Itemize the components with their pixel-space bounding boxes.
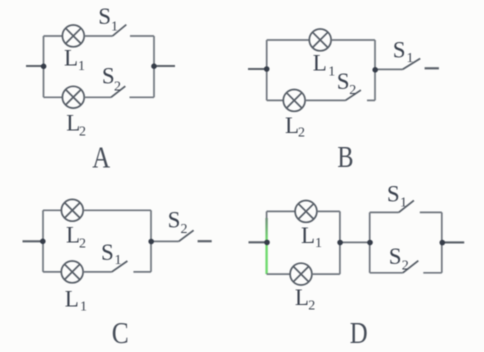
svg-text:L: L: [64, 46, 78, 71]
lamp L1 (circuit A): [62, 25, 84, 47]
wire: B bottom branch middle segment: [305, 99, 345, 101]
svg-text:A: A: [92, 141, 111, 175]
label S1 (circuit B): [393, 38, 414, 66]
wire: A bottom branch right segment: [130, 96, 155, 98]
label L1 (circuit C): [65, 287, 87, 315]
label S1 (circuit A): [98, 4, 118, 34]
label L1 (circuit D): [301, 223, 322, 251]
label L1 (circuit A): [64, 46, 85, 75]
wire: C left vertical: [42, 210, 44, 272]
label L1 (circuit B): [313, 51, 336, 80]
wire: D lamp-section bottom right segment: [312, 273, 340, 275]
label S2 (circuit A): [102, 64, 121, 95]
svg-text:L: L: [313, 51, 327, 76]
wire: A bottom branch middle segment: [84, 96, 111, 98]
wire: C left lead: [23, 240, 43, 242]
label S2 (circuit B): [337, 69, 357, 98]
node: B right junction: [372, 67, 378, 73]
svg-text:L: L: [285, 113, 299, 138]
label S1 (circuit D): [387, 181, 407, 210]
svg-text:2: 2: [402, 259, 409, 274]
svg-text:1: 1: [407, 51, 414, 66]
wire: C bottom branch middle segment: [83, 271, 112, 273]
node: D junction 1: [264, 240, 270, 246]
wire: D switch-section top right segment: [420, 211, 442, 213]
wire: B bottom branch right segment: [367, 99, 375, 101]
lamp L2 (circuit B): [283, 90, 305, 112]
svg-text:L: L: [301, 223, 315, 248]
wire: A right lead: [154, 65, 175, 67]
wire: B right vertical: [374, 40, 376, 100]
wire: B bottom branch left segment: [267, 99, 284, 101]
lamp L1 (circuit D): [295, 201, 317, 223]
switch S1 blade (circuit D): [399, 200, 414, 212]
wire: B node to switch S1: [375, 68, 402, 70]
lamp L2 (circuit A): [62, 86, 84, 108]
node: D junction 4: [440, 240, 446, 246]
wire: A top branch middle segment: [84, 35, 112, 37]
svg-text:S: S: [168, 207, 181, 232]
svg-text:1: 1: [115, 253, 122, 268]
wire: B top branch left segment: [267, 39, 310, 41]
svg-text:2: 2: [308, 298, 315, 313]
switch S1 blade (circuit C): [112, 261, 128, 272]
wire: A top branch right segment: [130, 35, 154, 37]
label S1 (circuit C): [101, 240, 122, 268]
svg-text:S: S: [389, 244, 402, 269]
switch S1 blade (circuit A): [113, 25, 127, 36]
node: A left junction: [41, 64, 47, 70]
wire: C node to switch S2: [151, 240, 179, 242]
wire: D left vertical green artifact: [265, 218, 267, 274]
svg-text:S: S: [387, 181, 400, 206]
wire: A bottom branch left segment: [44, 96, 63, 98]
wire: C top branch left segment: [43, 209, 62, 211]
svg-text:S: S: [101, 240, 114, 265]
wire: D switch-section left vertical: [369, 212, 371, 272]
label S2 (circuit C): [168, 207, 188, 236]
node: C right junction: [148, 239, 154, 245]
svg-text:B: B: [337, 140, 353, 175]
wire: A left vertical: [43, 36, 45, 97]
wire: D left lead: [249, 241, 267, 243]
wire: A left lead: [26, 65, 44, 67]
wire: D lamp-section top right segment: [317, 210, 340, 212]
wire: D switch-section bottom left segment: [370, 272, 403, 274]
wire: C open terminal dash: [198, 240, 212, 242]
lamp L2 (circuit C): [61, 199, 83, 221]
wire: D switch-section right vertical: [441, 212, 443, 272]
switch S1 blade (circuit B): [403, 59, 421, 70]
wire: C bottom branch left segment: [43, 271, 61, 273]
label L2 (circuit C): [66, 222, 86, 251]
label S2 (circuit D): [389, 244, 409, 274]
node: D junction 2: [337, 240, 343, 246]
wire: D lamp-section bottom left segment: [267, 273, 291, 275]
node: C left junction: [40, 239, 46, 245]
node: A right junction: [151, 63, 157, 69]
wire: D lamp-section right vertical: [339, 211, 341, 274]
wire: C right vertical: [150, 210, 152, 272]
wire: B left lead: [248, 68, 267, 70]
wire: D right lead: [442, 241, 464, 243]
wire: D left vertical upper part: [266, 211, 268, 218]
svg-text:2: 2: [349, 83, 356, 98]
wire: C bottom branch right segment: [133, 271, 151, 273]
svg-text:2: 2: [79, 236, 86, 251]
svg-text:L: L: [295, 285, 309, 310]
wire: D middle link: [340, 241, 370, 243]
wire: C top branch right segment: [83, 209, 151, 211]
svg-text:S: S: [98, 4, 111, 29]
svg-text:S: S: [393, 38, 406, 63]
svg-text:1: 1: [78, 59, 85, 74]
switch S2 blade (circuit B): [345, 90, 361, 100]
wire: B top branch right segment: [331, 39, 375, 41]
lamp L2 (circuit D): [290, 263, 312, 285]
switch S2 blade (circuit C): [179, 230, 194, 241]
svg-text:1: 1: [328, 64, 335, 79]
wire: B open terminal dash: [425, 67, 439, 69]
svg-text:L: L: [65, 287, 79, 312]
svg-text:L: L: [66, 222, 80, 247]
svg-text:D: D: [350, 317, 368, 351]
svg-text:2: 2: [181, 222, 188, 237]
svg-text:S: S: [337, 69, 350, 94]
node: B left junction: [264, 66, 270, 72]
svg-text:2: 2: [114, 79, 121, 94]
svg-text:C: C: [112, 317, 129, 351]
svg-text:S: S: [102, 64, 115, 89]
wire: D lamp-section top left segment: [267, 210, 296, 212]
svg-text:1: 1: [80, 300, 87, 315]
svg-text:2: 2: [79, 124, 86, 139]
wire: B left vertical: [266, 40, 268, 100]
svg-text:2: 2: [298, 126, 305, 141]
lamp L1 (circuit B): [309, 29, 331, 51]
label L2 (circuit A): [66, 111, 86, 140]
svg-text:1: 1: [400, 195, 407, 210]
switch S2 blade (circuit D): [403, 261, 419, 273]
switch S2 blade (circuit A): [111, 86, 125, 97]
wire: D switch-section top left segment: [370, 211, 399, 213]
wire: D switch-section bottom right segment: [423, 272, 442, 274]
label L2 (circuit D): [295, 285, 315, 313]
svg-text:1: 1: [111, 19, 118, 34]
wire: A right vertical: [153, 36, 155, 97]
label L2 (circuit B): [285, 113, 305, 141]
wire: A top branch left segment: [44, 35, 63, 37]
svg-text:1: 1: [315, 236, 322, 251]
lamp L1 (circuit C): [61, 261, 83, 283]
node: D junction 3: [367, 240, 373, 246]
